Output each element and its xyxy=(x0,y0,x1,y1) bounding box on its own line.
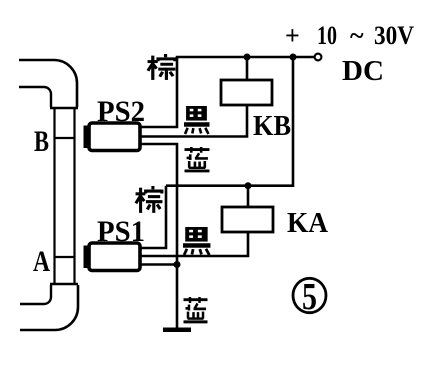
wire KB top lead xyxy=(246,57,249,80)
wire PS1 blue join xyxy=(141,263,177,266)
sensor PS1 body xyxy=(89,243,140,271)
figure number circle 5 xyxy=(293,278,326,312)
wire KA top lead xyxy=(247,186,250,207)
svg-text:DC: DC xyxy=(342,55,384,87)
svg-text:B: B xyxy=(34,125,49,158)
node right vertical tap xyxy=(290,54,297,61)
pipe top flange xyxy=(50,107,78,109)
pipe top elbow outer xyxy=(19,60,77,107)
pipe bottom flange xyxy=(50,283,78,285)
svg-text:30V: 30V xyxy=(374,21,414,50)
wire middle rail xyxy=(166,184,293,187)
terminal circle xyxy=(315,54,322,61)
wire PS2 brown up xyxy=(140,57,177,127)
label black PS2 xyxy=(184,106,209,134)
pipe wall left xyxy=(53,108,55,284)
label blue PS1 xyxy=(184,297,208,322)
svg-text:~: ~ xyxy=(350,21,364,50)
svg-text:PS1: PS1 xyxy=(97,215,145,248)
mark A tick xyxy=(55,256,75,258)
sensor PS2 body xyxy=(89,123,140,151)
node KB tap xyxy=(244,54,251,61)
ground xyxy=(163,328,191,333)
wire KA bottom to PS1 black xyxy=(141,232,248,256)
svg-text:10: 10 xyxy=(317,21,337,50)
pipe bottom elbow inner xyxy=(20,285,51,304)
relay KA coil xyxy=(222,207,273,232)
svg-text:PS2: PS2 xyxy=(97,95,145,128)
pipe bottom elbow outer xyxy=(20,285,78,330)
pipe top elbow inner xyxy=(19,87,51,107)
wire PS2 blue down to ground xyxy=(140,144,177,330)
label blue PS2 xyxy=(185,147,210,171)
pipe wall right xyxy=(73,108,75,284)
wire top supply rail xyxy=(176,56,315,59)
wire right vertical xyxy=(292,57,295,187)
sensor PS2 face cap xyxy=(84,126,91,149)
svg-text:KA: KA xyxy=(287,207,328,239)
label black PS1 xyxy=(183,227,210,255)
node blue junction xyxy=(174,261,181,268)
label brown PS1 xyxy=(136,186,163,213)
node KA tap xyxy=(245,182,252,189)
relay KB coil xyxy=(221,80,272,105)
svg-text:A: A xyxy=(33,245,50,278)
sensor PS1 face cap xyxy=(84,246,91,269)
label brown PS2 xyxy=(148,54,176,80)
svg-text:5: 5 xyxy=(302,276,317,318)
svg-text:+: + xyxy=(285,21,300,50)
svg-text:KB: KB xyxy=(253,110,291,142)
wire PS1 brown up xyxy=(141,186,166,248)
mark B tick xyxy=(55,137,75,139)
wire KB bottom to PS2 black xyxy=(140,105,247,137)
